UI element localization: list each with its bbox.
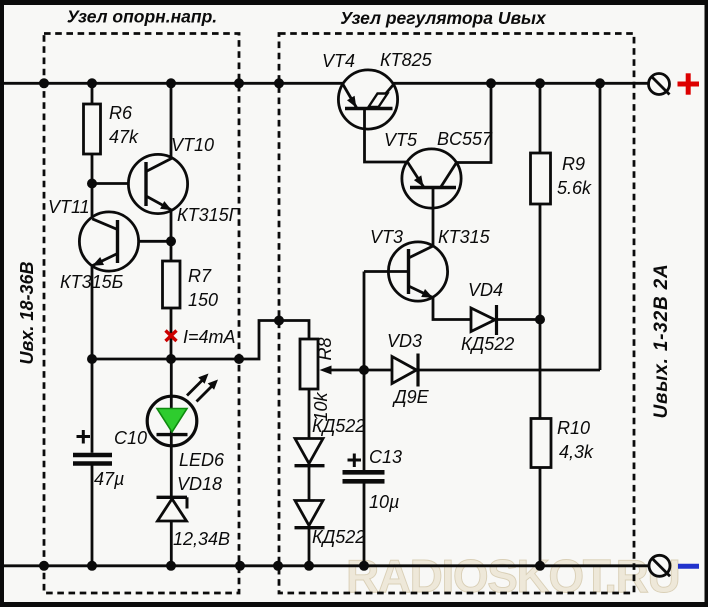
junction mid rail B (LED6 anode) — [166, 354, 176, 364]
svg-text:VT3: VT3 — [370, 227, 403, 247]
wire: VD4 cathode to node — [497, 318, 541, 321]
terminal: negative output — [649, 555, 670, 576]
junction bottom rail E — [273, 561, 283, 571]
svg-text:C10: C10 — [114, 428, 147, 448]
wire: zener anode to bottom rail — [170, 521, 173, 566]
svg-text:VD18: VD18 — [177, 474, 222, 494]
wire: R8 bottom to diode chain — [308, 389, 311, 439]
transistor VT10 — [128, 154, 187, 213]
plus sign C13 — [348, 454, 362, 468]
wire: C13 top lead — [363, 370, 366, 470]
svg-text:4,3k: 4,3k — [559, 442, 594, 462]
junction top rail C (VT10 collector) — [166, 78, 176, 88]
wire: VT11 emitter to mid rail — [91, 266, 94, 360]
junction mid rail A (C10 top) — [87, 354, 97, 364]
wire: VT11 base lead — [118, 240, 172, 243]
wire: VT10 collector to top rail — [170, 83, 173, 158]
node: wiper/VT3 base/VD3/C13 — [359, 365, 369, 375]
svg-text:Узел опорн.напр.: Узел опорн.напр. — [67, 7, 217, 27]
wire: chain bottom to bottom rail — [308, 528, 311, 566]
test point X (red) — [166, 331, 177, 342]
svg-text:R9: R9 — [562, 154, 585, 174]
wire: VT5 base to VT3 collector — [432, 188, 435, 247]
junction top rail A — [39, 78, 49, 88]
junction bottom rail D — [235, 561, 245, 571]
wire: C10 bottom lead — [91, 464, 94, 566]
wire: VT3 base lead — [364, 270, 409, 273]
wire: R9 top lead — [539, 83, 542, 153]
diode VD3 — [392, 354, 418, 387]
svg-text:Uвх. 18-36В: Uвх. 18-36В — [17, 262, 37, 365]
plus sign (red) — [678, 73, 700, 94]
junction top rail D — [234, 78, 244, 88]
zener VD18 — [157, 497, 188, 521]
wire: R6 bottom to node — [91, 154, 94, 184]
wire: VT3 emitter to VD4 — [433, 298, 471, 320]
junction top rail E — [274, 78, 284, 88]
LED arrows — [187, 374, 218, 402]
wire: VT10 base lead — [92, 182, 146, 185]
svg-text:КТ315Б: КТ315Б — [60, 272, 124, 292]
transistor VT11 — [79, 212, 138, 271]
svg-text:R6: R6 — [109, 103, 133, 123]
wire: between chain diodes — [308, 466, 311, 501]
svg-text:Узел регулятора Uвых: Узел регулятора Uвых — [340, 8, 547, 28]
node: R6/VT10 base/VT11 collector — [87, 179, 97, 189]
diode VD (КД522 upper) — [295, 439, 325, 466]
wire: VD3 cathode to x600 riser — [418, 369, 600, 372]
svg-text:КТ315: КТ315 — [438, 227, 491, 247]
wire: VT4 base to VT5 emitter — [365, 109, 408, 163]
resistor R9 — [531, 153, 551, 204]
diode VD (КД522 lower) — [295, 501, 325, 528]
capacitor C10 — [73, 455, 112, 464]
wire: VT10 emitter down to node — [170, 210, 173, 241]
svg-text:КД522: КД522 — [312, 527, 365, 547]
transistor VT5 — [402, 149, 461, 208]
wire: C10 top lead — [91, 359, 94, 453]
junction bottom rail H (R10) — [535, 561, 545, 571]
resistor R7 — [163, 261, 181, 308]
plus sign C10 — [77, 430, 91, 444]
wire: R9 bottom to node — [539, 204, 542, 320]
svg-text:10µ: 10µ — [369, 492, 399, 512]
node: VD4/R9/R10 — [535, 315, 545, 325]
svg-text:150: 150 — [188, 290, 218, 310]
wire: VT3 base down to wiper node — [363, 272, 366, 371]
dashed box: regulator block — [279, 34, 634, 594]
resistor R8 (variable) — [300, 339, 318, 389]
svg-text:C13: C13 — [369, 447, 402, 467]
svg-text:47µ: 47µ — [94, 469, 124, 489]
junction top rail F (VT5 collector riser) — [486, 78, 496, 88]
svg-text:КД522: КД522 — [461, 334, 514, 354]
wire: R6 top lead — [91, 83, 94, 104]
wire: top positive rail — [4, 82, 649, 85]
svg-text:R8: R8 — [315, 337, 335, 360]
transistor VT4 — [338, 70, 397, 129]
frame right — [705, 0, 708, 607]
junction bottom rail A — [39, 561, 49, 571]
svg-text:VT11: VT11 — [48, 197, 90, 217]
wire: R7 bottom to mid rail — [170, 308, 173, 359]
svg-text:47k: 47k — [109, 127, 139, 147]
capacitor C13 — [343, 472, 385, 481]
junction mid rail C — [234, 354, 244, 364]
wire: VT5 collector to top rail — [457, 83, 492, 162]
wire: VT11 collector lead — [91, 184, 94, 220]
svg-text:BC557: BC557 — [437, 129, 493, 149]
wiper arrow of R8 — [320, 366, 365, 375]
svg-text:VD3: VD3 — [387, 331, 422, 351]
transistor VT3 — [388, 242, 447, 301]
wire: R10 bottom to bottom rail — [539, 468, 542, 566]
svg-text:R7: R7 — [188, 266, 212, 286]
junction bottom rail B (C10) — [87, 561, 97, 571]
wire: C13 bottom lead — [363, 481, 366, 566]
wire: riser x600 to top rail — [599, 83, 602, 370]
wire: mid reference rail y=359 — [92, 321, 309, 360]
wire: VD3 anode lead — [364, 369, 392, 372]
svg-text:VT5: VT5 — [384, 130, 418, 150]
svg-text:12,34В: 12,34В — [173, 529, 230, 549]
LED LED6 — [147, 359, 197, 497]
junction top rail H (VD3 riser) — [595, 78, 605, 88]
svg-text:I=4mA: I=4mA — [183, 327, 236, 347]
junction bottom rail G (C13) — [359, 561, 369, 571]
dashed box: reference-voltage block — [44, 34, 239, 594]
wire: node to R10 top — [539, 320, 542, 419]
svg-text:LED6: LED6 — [179, 450, 225, 470]
svg-text:КТ825: КТ825 — [380, 50, 433, 70]
svg-text:КД522: КД522 — [312, 416, 365, 436]
svg-text:5.6k: 5.6k — [557, 178, 592, 198]
svg-text:VD4: VD4 — [468, 280, 503, 300]
wire: R7 top lead — [170, 241, 173, 261]
svg-text:Uвых. 1-32В 2А: Uвых. 1-32В 2А — [651, 263, 672, 418]
minus sign (blue) — [678, 564, 699, 569]
frame bottom — [0, 602, 708, 607]
junction bottom rail C (VD18) — [166, 561, 176, 571]
junction R8 top jog — [274, 316, 284, 326]
junction bottom rail F (diode chain) — [304, 561, 314, 571]
frame top — [0, 0, 708, 5]
junction top rail B (R6) — [87, 78, 97, 88]
terminal: positive output — [649, 74, 670, 95]
wire: bottom negative rail — [4, 564, 649, 567]
svg-text:КТ315Г: КТ315Г — [177, 205, 240, 225]
svg-text:Д9Е: Д9Е — [392, 387, 430, 407]
svg-text:VT4: VT4 — [322, 51, 355, 71]
diode VD4 — [471, 305, 497, 335]
resistor R6 — [84, 104, 101, 154]
node: VT10 emitter/VT11 base/R7 — [166, 236, 176, 246]
svg-text:R10: R10 — [557, 418, 590, 438]
frame left — [0, 0, 4, 607]
svg-text:VT10: VT10 — [171, 135, 214, 155]
resistor R10 — [531, 419, 551, 468]
junction top rail G (R9) — [535, 78, 545, 88]
